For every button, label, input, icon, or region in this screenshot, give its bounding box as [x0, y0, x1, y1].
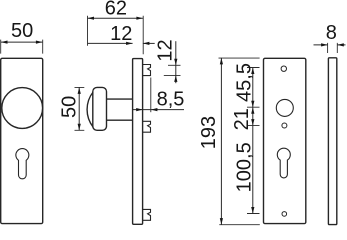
right plate outline	[264, 58, 306, 223]
svg-text:8,5: 8,5	[157, 89, 185, 111]
dimension 193 line	[220, 58, 222, 225]
svg-text:21: 21	[231, 108, 253, 130]
dimension 62 arrows	[88, 17, 143, 20]
dimension 50 knob arrows	[78, 87, 81, 130]
dimension 8,5 line	[133, 78, 184, 113]
dimension 12 vertical (clip height) line	[164, 41, 181, 83]
tick bottom	[164, 74, 181, 76]
dimension 8,5 arrows	[136, 108, 157, 111]
extension line from top clip down to 8,5	[150, 78, 152, 113]
left plate knob rose circle	[2, 88, 43, 129]
middle clip	[143, 121, 151, 132]
right plate top screw hole	[281, 66, 286, 71]
svg-text:8: 8	[326, 22, 337, 44]
right side bar (thin plate side view)	[328, 58, 336, 225]
svg-text:62: 62	[105, 0, 127, 20]
svg-text:12: 12	[155, 39, 177, 61]
dimension 62 line	[88, 17, 143, 19]
chain dimension line	[247, 68, 260, 214]
tick top	[168, 64, 181, 66]
dimension 50 arrows	[1, 41, 42, 44]
dimension 8: extension lines	[314, 43, 346, 53]
knob neck top line	[107, 98, 133, 100]
svg-text:12: 12	[110, 23, 132, 45]
chain arrows	[251, 68, 254, 214]
left plate euro keyhole	[16, 149, 29, 179]
right plate bottom screw hole	[282, 212, 287, 217]
right plate handle hole	[276, 99, 293, 116]
bottom clip	[143, 209, 151, 220]
dimension 12 horizontal lines	[88, 42, 155, 44]
dimension 193 arrows	[220, 58, 223, 225]
knob front dome arc	[87, 92, 93, 127]
dimension 193: extension lines	[219, 58, 260, 225]
chain ticks	[247, 68, 260, 214]
top clip	[143, 65, 151, 76]
svg-text:45,5: 45,5	[234, 63, 256, 102]
svg-text:193: 193	[198, 116, 220, 149]
dimension 62: extension lines	[88, 16, 144, 55]
svg-text:100,5: 100,5	[234, 142, 256, 192]
dimension 12 horizontal arrows	[126, 42, 149, 45]
svg-text:50: 50	[59, 96, 81, 118]
svg-text:50: 50	[11, 20, 33, 42]
dimension 50 knob: ticks	[75, 87, 85, 130]
dimension 50 line	[1, 41, 42, 43]
side bar (plate cross-section)	[133, 59, 143, 225]
left plate outline	[1, 58, 43, 223]
dimension 12 vertical arrows	[174, 59, 177, 82]
dimension 50 knob line	[78, 87, 80, 130]
dimension 8 lines	[314, 44, 346, 46]
dimension 8 arrows	[321, 43, 344, 46]
right plate middle screw hole	[282, 123, 287, 128]
knob neck bottom line	[107, 119, 133, 121]
dimension 50 plate width: extension lines	[1, 40, 43, 54]
middle view: knob head pill	[87, 59, 150, 225]
right plate euro keyhole	[277, 148, 290, 178]
